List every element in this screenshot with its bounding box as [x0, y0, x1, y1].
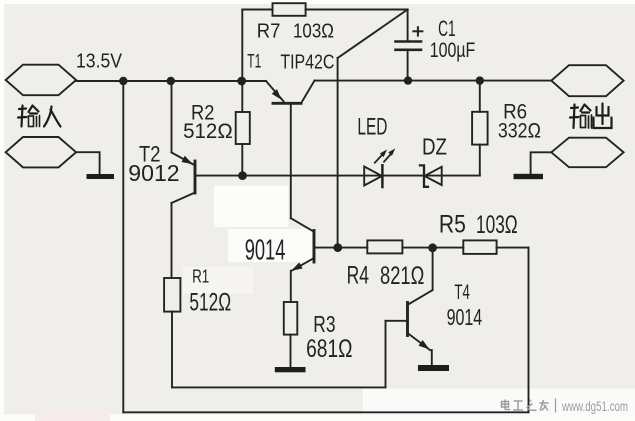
svg-text:681Ω: 681Ω — [306, 335, 352, 363]
wire C1 bottom lead — [407, 52, 409, 81]
transistor T1 emitter line — [266, 81, 284, 101]
wire R7 left column — [241, 10, 243, 82]
wire R5 right vertical — [528, 248, 530, 413]
LED D1 triangle — [364, 167, 382, 186]
svg-text:LED: LED — [357, 114, 387, 141]
wire R2 top lead — [241, 81, 243, 112]
svg-text:100µF: 100µF — [430, 39, 476, 62]
wire T4 emitter lead to ground — [431, 350, 433, 365]
wire T4 base lead — [386, 320, 408, 322]
wire T1 base vertical — [290, 103, 292, 218]
arrowhead T3 emitter (NPN, outward) — [291, 262, 302, 270]
junction dot input rail / R7 / R2 — [237, 77, 246, 86]
junction dot input rail / T2 emitter — [167, 77, 175, 85]
wire T4 base column — [385, 321, 387, 388]
arrowhead T4 emitter (NPN, outward) — [419, 340, 430, 350]
arrowhead LED arrow 2 — [388, 148, 395, 156]
junction dot T3 base / R4 row — [333, 243, 342, 252]
svg-text:R7: R7 — [257, 21, 281, 43]
transistor T4 base bar — [406, 303, 409, 336]
watermark dg51 — [502, 399, 556, 413]
svg-text:512Ω: 512Ω — [183, 120, 233, 143]
wire input ground lead — [76, 152, 100, 174]
wire R2 bottom lead — [241, 144, 243, 176]
wire C1 top lead — [407, 10, 409, 41]
wire long diagonal to T3 base column — [338, 10, 408, 59]
transistor T2 collector diagonal — [172, 193, 196, 204]
wire T4 collector diagonal — [408, 290, 432, 305]
resistor R6 box — [472, 112, 488, 145]
wire R1 bottom lead — [171, 312, 173, 388]
resistor R1 box — [164, 278, 180, 312]
svg-text:R5: R5 — [439, 211, 466, 239]
transistor T1 collector line — [301, 81, 315, 104]
label output (Chinese: shu chu) hand-drawn — [570, 104, 612, 129]
svg-text:R1: R1 — [192, 267, 209, 287]
resistor R2 box — [236, 112, 250, 144]
wire inner bottom rail — [172, 386, 386, 388]
resistor R5 box — [463, 240, 496, 254]
svg-text:103Ω: 103Ω — [476, 211, 518, 239]
capacitor C1 top plate — [396, 40, 422, 43]
LED D1 arrow 2 — [384, 152, 392, 161]
wire output rail — [315, 80, 552, 82]
wire T4 collector vertical — [432, 248, 434, 290]
junction dot input rail / left vertical — [119, 77, 127, 85]
svg-text:332Ω: 332Ω — [498, 120, 541, 143]
wire LED / base row — [195, 175, 480, 177]
svg-text:R4: R4 — [347, 262, 369, 290]
wire top row right of R7 — [306, 9, 408, 11]
wire R3 bottom lead — [290, 335, 292, 367]
junction dot output rail / R6 — [476, 76, 484, 84]
wire T2 emitter vertical — [171, 81, 173, 153]
resistor R4 box — [367, 240, 402, 253]
ground symbol input — [87, 174, 115, 179]
svg-text:9014: 9014 — [447, 304, 483, 330]
ground symbol output — [514, 174, 544, 179]
svg-text:TIP42C: TIP42C — [280, 52, 334, 74]
wire R6 top lead — [479, 81, 481, 112]
wire T3 collector diagonal — [291, 218, 314, 231]
wire R4 row — [314, 247, 367, 249]
ground symbol T4 emitter — [418, 365, 449, 371]
arrowhead T1 emitter (PNP, into bar) — [272, 89, 282, 100]
svg-text:9012: 9012 — [128, 160, 179, 186]
LED D1 arrow 1 — [375, 153, 384, 163]
output connector hexagon — [551, 65, 623, 96]
arrowhead LED arrow 1 — [380, 149, 387, 157]
capacitor C1 plus sign — [413, 27, 422, 35]
wire output ground lead — [531, 152, 552, 174]
svg-text:T4: T4 — [454, 281, 470, 304]
wire outer bottom rail — [123, 411, 528, 413]
input connector hexagon (13.5V) — [6, 65, 76, 96]
resistor R7 box — [273, 3, 306, 16]
resistor R3 box — [284, 302, 298, 335]
svg-text:9014: 9014 — [245, 235, 286, 267]
LED D1 cathode bar — [381, 165, 384, 187]
wire top row left of R7 — [242, 9, 272, 11]
transistor T1 base bar — [273, 102, 301, 105]
junction dot R4 / R5 / T4 collector — [428, 243, 437, 252]
wire input rail 13.5V — [76, 80, 266, 82]
output ground connector hexagon — [551, 138, 623, 168]
wire T3 base vertical column — [337, 58, 339, 248]
svg-text:www.dg51.com: www.dg51.com — [561, 398, 628, 414]
wire R5 right lead — [497, 247, 529, 249]
wire left outer vertical — [122, 81, 124, 412]
transistor T2 base bar — [194, 161, 197, 193]
zener diode DZ cathode bar with hooks — [420, 165, 428, 186]
svg-text:512Ω: 512Ω — [189, 289, 231, 317]
svg-text:C1: C1 — [438, 16, 456, 41]
svg-text:103Ω: 103Ω — [293, 21, 334, 43]
junction dot R2 bottom / T2 base / LED row — [238, 171, 247, 180]
zener diode DZ triangle — [425, 167, 442, 185]
wire T2 collector vertical to R1 — [171, 203, 173, 278]
label input (Chinese: shu ru) hand-drawn — [18, 106, 61, 127]
svg-text:DZ: DZ — [422, 133, 447, 159]
junction dot output rail / C1 — [404, 76, 412, 84]
arrowhead T2 emitter (PNP, into bar) — [182, 156, 193, 164]
svg-text:R3: R3 — [313, 311, 335, 337]
wire T3 emitter to R3 — [290, 271, 292, 302]
transistor T3 emitter diagonal — [291, 258, 314, 271]
capacitor C1 bottom plate — [396, 48, 422, 51]
svg-text:T1: T1 — [247, 52, 261, 73]
input ground connector hexagon — [6, 137, 76, 167]
transistor T2 emitter diagonal — [172, 153, 194, 165]
transistor T4 emitter diagonal — [408, 333, 431, 350]
wire R4 to T4 collector node — [402, 247, 463, 249]
svg-text:13.5V: 13.5V — [76, 51, 123, 73]
transistor T3 base bar — [313, 231, 316, 263]
ground symbol R3 — [275, 367, 306, 372]
wire R6 bottom lead — [479, 145, 481, 176]
svg-text:821Ω: 821Ω — [380, 262, 424, 290]
